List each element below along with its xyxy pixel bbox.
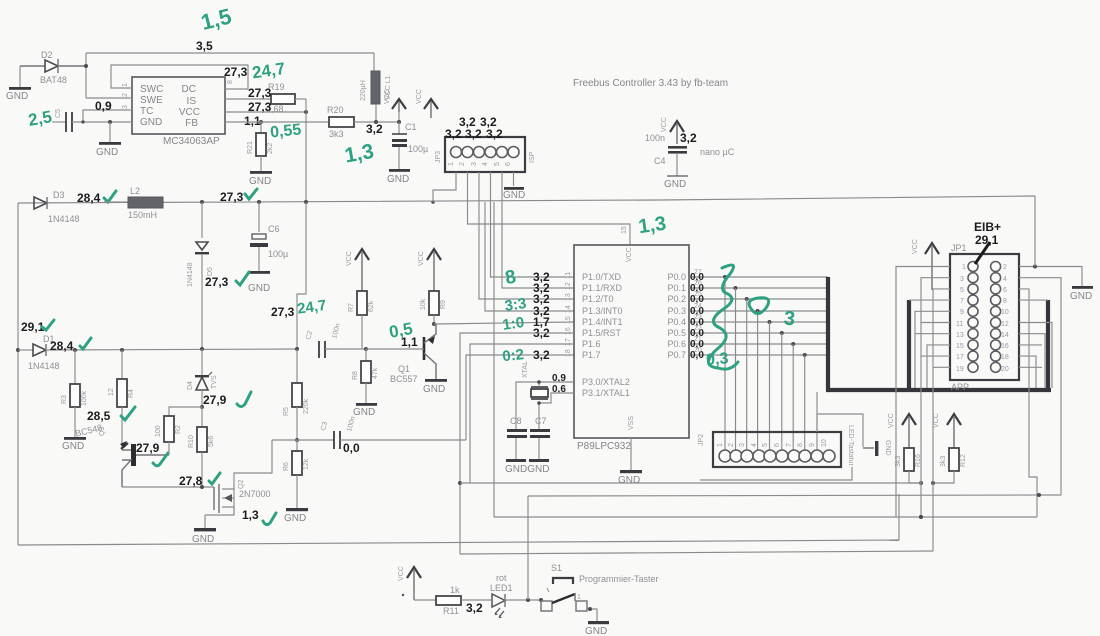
wire FB row bbox=[225, 121, 329, 123]
diode D1 1N4148 bbox=[16, 334, 297, 371]
ground at C1 bbox=[387, 169, 410, 185]
svg-text:3: 3 bbox=[122, 105, 129, 109]
wire VCC pin to node bbox=[225, 99, 308, 202]
svg-text:nano µC: nano µC bbox=[700, 147, 735, 157]
svg-text:FB: FB bbox=[185, 118, 198, 129]
labels 3,2 row above ISP bbox=[445, 115, 503, 141]
svg-text:P0.3: P0.3 bbox=[667, 306, 686, 316]
resistor R19 bbox=[225, 82, 306, 114]
svg-text:3k3: 3k3 bbox=[940, 456, 947, 467]
svg-text:P3.0/XTAL2: P3.0/XTAL2 bbox=[582, 377, 630, 387]
svg-text:VCC: VCC bbox=[888, 413, 895, 428]
microcontroller U2 P89LPC932 bbox=[574, 245, 689, 452]
svg-text:8: 8 bbox=[1003, 298, 1007, 305]
bus net y542 bbox=[18, 540, 899, 545]
green note 0,5 bbox=[388, 319, 415, 342]
green notes at P1 pins bbox=[501, 267, 527, 366]
vertical link bus542 to bus495 bbox=[898, 494, 900, 540]
svg-text:R3: R3 bbox=[61, 395, 68, 404]
green 3 mark bbox=[783, 307, 796, 330]
diode D2 BAT48 bbox=[20, 50, 88, 85]
capacitor C5 on pin4 row bbox=[52, 109, 132, 132]
svg-text:3,5: 3,5 bbox=[196, 39, 213, 53]
P0 rows with 0,0 labels bbox=[689, 277, 828, 355]
svg-text:26: 26 bbox=[694, 280, 702, 287]
svg-text:DC: DC bbox=[182, 84, 196, 95]
svg-text:GND: GND bbox=[503, 190, 525, 201]
svg-text:0,0: 0,0 bbox=[343, 441, 360, 455]
svg-text:24: 24 bbox=[694, 303, 702, 310]
svg-text:3: 3 bbox=[960, 276, 964, 283]
svg-text:220µH: 220µH bbox=[360, 80, 367, 101]
svg-text:3: 3 bbox=[783, 307, 796, 330]
svg-text:3,2: 3,2 bbox=[486, 127, 503, 141]
svg-text:20: 20 bbox=[694, 347, 702, 354]
svg-text:GND: GND bbox=[62, 441, 84, 452]
header JP2 LED-Tastatur bbox=[698, 425, 854, 467]
label 27,3 top bbox=[224, 65, 248, 79]
label 0,9 bbox=[95, 99, 112, 113]
svg-text:13: 13 bbox=[956, 332, 964, 339]
green note 24,7 top bbox=[251, 59, 286, 82]
junction dots on rail bbox=[200, 200, 308, 204]
svg-text:R21: R21 bbox=[247, 141, 254, 154]
svg-text:GND: GND bbox=[249, 176, 271, 187]
ground at R21 bbox=[249, 171, 272, 187]
svg-text:JP2: JP2 bbox=[698, 434, 705, 446]
resistor R9 10k bbox=[420, 291, 447, 324]
svg-text:SWE: SWE bbox=[140, 95, 163, 106]
wire EIB+ pin1 to bus bbox=[896, 267, 950, 518]
svg-text:GND: GND bbox=[1070, 291, 1092, 302]
svg-text:27: 27 bbox=[694, 269, 702, 276]
svg-text:C1: C1 bbox=[405, 122, 417, 132]
junction dots P0 bbox=[723, 275, 807, 357]
svg-text:SWC: SWC bbox=[140, 84, 163, 95]
green note 2,5 bbox=[27, 107, 54, 130]
svg-text:27,9: 27,9 bbox=[203, 393, 227, 407]
svg-text:100: 100 bbox=[155, 425, 162, 437]
svg-text:27,9: 27,9 bbox=[136, 441, 160, 455]
label 28,4 + check bbox=[77, 191, 116, 205]
label 27,3 + check at rail bbox=[220, 189, 257, 204]
bus net y495 bbox=[528, 493, 1061, 497]
pin numbers uC right bbox=[694, 269, 702, 354]
label 27,9 + check at Q3 bbox=[136, 441, 168, 466]
wire top 3,5 loop bbox=[86, 53, 374, 98]
svg-text:27,8: 27,8 bbox=[179, 474, 203, 488]
svg-text:5k6: 5k6 bbox=[208, 436, 215, 447]
svg-text:8: 8 bbox=[797, 443, 804, 447]
svg-text:23: 23 bbox=[694, 314, 702, 321]
op-amp U1 MC34063AP box bbox=[132, 77, 225, 147]
svg-text:150mH: 150mH bbox=[128, 210, 157, 220]
resistor R11 1k bbox=[414, 585, 491, 616]
header JP1 APP bbox=[950, 243, 1019, 392]
svg-text:rot: rot bbox=[496, 573, 507, 583]
svg-text:21: 21 bbox=[694, 336, 702, 343]
svg-text:16: 16 bbox=[1001, 343, 1009, 350]
wire ISP pin3 to P1.2 bbox=[479, 172, 574, 299]
bus net y483 bbox=[460, 482, 921, 484]
label 28,5 + check bbox=[87, 407, 135, 423]
wire JP1 left stubs bbox=[909, 278, 950, 483]
wire gate row 27,8 bbox=[122, 485, 214, 489]
ground at C4 bbox=[664, 176, 688, 190]
svg-text:VCC: VCC bbox=[661, 117, 668, 132]
svg-text:15: 15 bbox=[956, 343, 964, 350]
label 1,1 at Q1 bbox=[401, 335, 418, 349]
svg-text:220k: 220k bbox=[303, 398, 310, 414]
wire bus to bottom net bbox=[493, 202, 495, 517]
label 27,3 + green 24,7 at branch bbox=[271, 297, 327, 319]
svg-text:GND: GND bbox=[248, 283, 270, 294]
resistor R5 220k bbox=[283, 349, 310, 440]
resistor R20 3k3 bbox=[327, 105, 399, 139]
svg-text:R20: R20 bbox=[327, 105, 344, 115]
svg-text:ISP: ISP bbox=[529, 151, 536, 163]
svg-text:7: 7 bbox=[786, 443, 793, 447]
capacitor C2 100n bbox=[305, 323, 366, 358]
svg-text:R4: R4 bbox=[128, 389, 135, 398]
wire rail down to R5 branch bbox=[297, 202, 306, 349]
svg-text:2,5: 2,5 bbox=[27, 107, 54, 130]
resistor R12 3k3 bbox=[931, 448, 967, 485]
svg-text:100n: 100n bbox=[645, 133, 665, 143]
wire Q1 collector to P1.4 bbox=[434, 322, 574, 324]
svg-text:27,3: 27,3 bbox=[205, 275, 229, 289]
svg-text:VCC: VCC bbox=[912, 239, 919, 254]
svg-text:P1.5/RST: P1.5/RST bbox=[582, 328, 622, 338]
green note 1,5 bbox=[198, 3, 234, 35]
switch S1 Programmier-Taster bbox=[541, 563, 659, 621]
svg-text:3,2: 3,2 bbox=[445, 127, 462, 141]
wire P1.6 down net bbox=[470, 344, 574, 483]
inductor L1 220uH bbox=[360, 71, 392, 124]
svg-text:P0.5: P0.5 bbox=[667, 328, 686, 338]
node at R6 top bbox=[272, 438, 334, 442]
bus net y517 bbox=[494, 515, 1037, 519]
svg-text:GND: GND bbox=[618, 475, 640, 486]
svg-text:S1: S1 bbox=[551, 563, 562, 573]
svg-text:R8: R8 bbox=[352, 371, 359, 380]
green note 0,55 bbox=[269, 121, 302, 141]
svg-text:TVS: TVS bbox=[211, 375, 218, 389]
svg-text:3,2: 3,2 bbox=[680, 131, 697, 145]
svg-text:7: 7 bbox=[960, 298, 964, 305]
svg-text:100k: 100k bbox=[81, 390, 88, 406]
VCC arrow at R11 bbox=[398, 566, 421, 600]
svg-text:11: 11 bbox=[565, 272, 572, 279]
capacitor C6 100u electrolytic bbox=[250, 202, 288, 272]
svg-text:15: 15 bbox=[621, 226, 628, 234]
svg-text:100µ: 100µ bbox=[408, 144, 428, 154]
wire node to P1.3 bbox=[485, 202, 574, 311]
wire ISP pin4 to P1.0 bbox=[491, 172, 575, 277]
grounds at C8 C7 bbox=[505, 459, 549, 475]
thick bus bracket bbox=[826, 277, 1051, 390]
svg-text:JP1: JP1 bbox=[951, 243, 967, 253]
svg-text:GND: GND bbox=[353, 407, 375, 418]
green 0,3 mark bbox=[706, 350, 729, 369]
svg-text:1N4148: 1N4148 bbox=[48, 214, 80, 224]
header JP3 ISP bbox=[435, 137, 536, 172]
svg-text:12: 12 bbox=[565, 282, 572, 290]
svg-text:17: 17 bbox=[565, 338, 572, 346]
resistor R8 47k bbox=[352, 349, 379, 404]
svg-text:C4: C4 bbox=[654, 156, 666, 166]
svg-text:0,3: 0,3 bbox=[706, 350, 729, 369]
wire JP1 right stubs bbox=[1019, 278, 1061, 517]
svg-text:1N4148: 1N4148 bbox=[187, 262, 194, 287]
inductor L2 150mH bbox=[104, 186, 163, 220]
labels 0,9 0,6 at xtal pins bbox=[552, 373, 566, 395]
svg-text:Q2: Q2 bbox=[238, 480, 245, 489]
zener D4 TVS bbox=[187, 349, 218, 409]
label EIB+ 29,1 with arrow bbox=[974, 220, 1001, 264]
svg-text:25: 25 bbox=[694, 291, 702, 298]
svg-text:C5: C5 bbox=[55, 109, 62, 118]
svg-text:9: 9 bbox=[960, 309, 964, 316]
wire ISP pin2 VCC to uC bbox=[468, 172, 631, 245]
svg-text:P0.0: P0.0 bbox=[667, 272, 686, 282]
svg-text:P1.6: P1.6 bbox=[582, 339, 601, 349]
svg-text:GND: GND bbox=[884, 440, 891, 456]
svg-text:0,5: 0,5 bbox=[388, 319, 415, 342]
svg-text:R10: R10 bbox=[188, 435, 195, 448]
svg-text:GND: GND bbox=[585, 626, 607, 636]
ground at R8 bbox=[353, 403, 377, 418]
svg-text:10: 10 bbox=[821, 439, 828, 447]
wire P1.5 to reset net bbox=[458, 333, 574, 554]
resistor R7 62k bbox=[348, 291, 375, 351]
title Freebus Controller bbox=[573, 78, 728, 89]
svg-text:P0.2: P0.2 bbox=[667, 294, 686, 304]
svg-text:APP: APP bbox=[951, 382, 969, 392]
svg-text:28,4: 28,4 bbox=[77, 191, 101, 205]
svg-text:1: 1 bbox=[122, 83, 129, 87]
VCC arrow at C1 node bbox=[384, 89, 406, 124]
node 3,5 label bbox=[196, 39, 213, 53]
svg-text:3:3: 3:3 bbox=[504, 295, 528, 315]
transistor Q2 2N7000 bbox=[205, 480, 271, 515]
svg-text:R12: R12 bbox=[960, 454, 967, 467]
svg-text:27,3: 27,3 bbox=[220, 190, 244, 204]
wire ISP pin5 to P1.1 bbox=[502, 172, 574, 288]
svg-text:22: 22 bbox=[694, 325, 702, 332]
svg-text:Q1: Q1 bbox=[398, 364, 410, 374]
svg-text:9: 9 bbox=[809, 443, 816, 447]
pin numbers uC left bbox=[565, 272, 572, 357]
VCC arrow second bbox=[416, 89, 438, 118]
capacitor C4 100n bbox=[645, 117, 735, 176]
svg-text:R6: R6 bbox=[283, 462, 290, 471]
wire to Q1 base bbox=[366, 348, 423, 350]
svg-text:VCC: VCC bbox=[398, 566, 405, 581]
wire LED node up to bus bbox=[527, 496, 529, 600]
wire JP1 pin2 to ground bbox=[1019, 265, 1082, 288]
svg-text:P1.2/T0: P1.2/T0 bbox=[582, 294, 614, 304]
svg-text:LED-Tastatur: LED-Tastatur bbox=[847, 425, 854, 467]
VCC arrow at R12 bbox=[933, 413, 961, 448]
rail 27,3 bus bbox=[18, 196, 1035, 203]
label 29,1 + check bbox=[21, 320, 54, 334]
svg-text:VCC: VCC bbox=[346, 251, 353, 266]
svg-text:16: 16 bbox=[565, 327, 572, 335]
svg-text:P3.1/XTAL1: P3.1/XTAL1 bbox=[582, 388, 630, 398]
svg-text:P1.0/TXD: P1.0/TXD bbox=[582, 272, 622, 282]
diode D5 1N4148 vertical bbox=[187, 202, 214, 349]
svg-text:6: 6 bbox=[505, 162, 512, 166]
labels 3,2 column at P1 pins bbox=[533, 270, 550, 362]
svg-text:P0.4: P0.4 bbox=[667, 317, 686, 327]
svg-text:1: 1 bbox=[577, 594, 581, 601]
svg-text:2: 2 bbox=[1003, 264, 1007, 271]
labels 27,3 27,3 at R19 bbox=[248, 86, 272, 114]
svg-text:P0.6: P0.6 bbox=[667, 339, 686, 349]
svg-text:EIB+: EIB+ bbox=[974, 220, 1001, 234]
wire rail corner down right bbox=[1034, 196, 1036, 267]
VCC arrow at R7 bbox=[346, 249, 369, 291]
svg-text:1: 1 bbox=[717, 443, 724, 447]
resistor R3 100k bbox=[61, 350, 88, 438]
svg-text:R11: R11 bbox=[443, 606, 459, 616]
svg-text:D4: D4 bbox=[187, 381, 194, 390]
svg-text:12k: 12k bbox=[303, 458, 310, 470]
svg-text:C7: C7 bbox=[535, 416, 547, 426]
label 3,2 at LED bbox=[466, 601, 483, 615]
svg-text:18: 18 bbox=[1001, 354, 1009, 361]
svg-text:LED1: LED1 bbox=[490, 583, 513, 593]
crystal Q4 bbox=[516, 361, 574, 429]
svg-text:D3: D3 bbox=[53, 190, 65, 200]
svg-text:Freebus Controller 3.43 by fb-: Freebus Controller 3.43 by fb-team bbox=[573, 78, 728, 89]
svg-text:1: 1 bbox=[962, 264, 966, 271]
svg-text:P0.1: P0.1 bbox=[667, 283, 686, 293]
svg-text:VCC: VCC bbox=[626, 247, 633, 262]
svg-text:IS: IS bbox=[187, 96, 197, 107]
capacitor C3 100n bbox=[320, 416, 466, 455]
label 27,9 + check at D4 bbox=[203, 392, 251, 407]
svg-text:R9: R9 bbox=[440, 300, 447, 309]
svg-text:VCC: VCC bbox=[418, 251, 425, 266]
svg-text:1k: 1k bbox=[450, 585, 460, 595]
svg-text:11: 11 bbox=[956, 321, 963, 328]
transistor Q3 bbox=[120, 441, 169, 487]
capacitor C7 bbox=[530, 416, 550, 459]
wire ISP pin1 to rail bbox=[431, 172, 456, 204]
resistor R10 5k6 bbox=[188, 407, 215, 487]
svg-text:10: 10 bbox=[1001, 309, 1009, 316]
svg-text:GND: GND bbox=[96, 147, 118, 158]
pin 1 SWC loop to pin 8 DC bbox=[111, 65, 248, 89]
svg-text:14: 14 bbox=[565, 305, 572, 313]
label 1,1 at FB bbox=[244, 114, 263, 128]
svg-text:18: 18 bbox=[565, 349, 572, 357]
green note 1,3 bbox=[343, 140, 376, 168]
svg-text:15: 15 bbox=[565, 316, 572, 324]
ground at R6 bbox=[284, 508, 308, 524]
junction dots at S1 bbox=[526, 598, 543, 602]
svg-text:P1.7: P1.7 bbox=[582, 350, 601, 360]
svg-text:R2: R2 bbox=[175, 425, 182, 434]
pin 3 TC wire bbox=[83, 105, 132, 122]
svg-text:27,3: 27,3 bbox=[248, 86, 272, 100]
ground at S1 bbox=[585, 621, 609, 636]
wire JP2 pin9 to ground bbox=[817, 414, 863, 447]
svg-text:D2: D2 bbox=[41, 50, 53, 60]
svg-text:2k2: 2k2 bbox=[267, 143, 274, 154]
svg-text:3: 3 bbox=[471, 162, 478, 166]
svg-text:P89LPC932: P89LPC932 bbox=[577, 441, 631, 452]
svg-text:2: 2 bbox=[122, 93, 129, 97]
svg-text:P1.1/RXD: P1.1/RXD bbox=[582, 283, 623, 293]
svg-text:12: 12 bbox=[1001, 321, 1009, 328]
vertical R16 node to bus bbox=[919, 483, 923, 519]
wires P0 down to JP2 bbox=[725, 277, 817, 450]
svg-text:4: 4 bbox=[482, 162, 489, 166]
svg-text:28,4: 28,4 bbox=[50, 339, 74, 353]
svg-text:BAT48: BAT48 bbox=[40, 75, 67, 85]
svg-text:13: 13 bbox=[565, 293, 572, 301]
label 28,4 + check at D1 bbox=[50, 338, 91, 353]
drain wire Q2 to C3 row bbox=[234, 440, 272, 481]
svg-text:17: 17 bbox=[956, 354, 964, 361]
frame line under JP2 bbox=[700, 467, 852, 480]
label 1,3 + check at Q2 bbox=[242, 508, 276, 525]
svg-text:P0.7: P0.7 bbox=[667, 350, 686, 360]
ground at Q2 bbox=[192, 515, 216, 545]
svg-text:BC557: BC557 bbox=[390, 374, 418, 384]
svg-text:GND: GND bbox=[387, 174, 409, 185]
vertical R12 node to bus bbox=[932, 483, 934, 551]
svg-text:4: 4 bbox=[751, 443, 758, 447]
bus net y553 bbox=[460, 551, 933, 554]
svg-text:14: 14 bbox=[1001, 332, 1009, 339]
svg-text:10k: 10k bbox=[420, 298, 427, 310]
svg-text:R7: R7 bbox=[348, 303, 355, 312]
svg-text:100µ: 100µ bbox=[268, 249, 288, 259]
transistor Q3 BC548 label bbox=[74, 422, 106, 438]
svg-text:5: 5 bbox=[960, 287, 964, 294]
svg-text:1: 1 bbox=[448, 162, 455, 166]
green loop 0 bbox=[749, 298, 769, 314]
svg-text:2: 2 bbox=[459, 162, 466, 166]
svg-text:1:0: 1:0 bbox=[501, 314, 525, 334]
svg-text:5: 5 bbox=[494, 162, 501, 166]
svg-text:1N4148: 1N4148 bbox=[28, 361, 60, 371]
ground at D2 bbox=[6, 66, 31, 102]
label 27,3 + check at D5 bbox=[205, 272, 249, 289]
svg-text:VCC: VCC bbox=[933, 413, 940, 428]
svg-text:L2: L2 bbox=[130, 186, 140, 196]
node dots on D1 row bbox=[73, 347, 299, 352]
svg-text:3,2: 3,2 bbox=[465, 127, 482, 141]
svg-text:Programmier-Taster: Programmier-Taster bbox=[579, 574, 659, 584]
ground at JP1 pin2 bbox=[1070, 286, 1093, 302]
svg-text:GND: GND bbox=[423, 384, 445, 395]
VCC arrow at R9 bbox=[418, 249, 441, 291]
svg-text:8: 8 bbox=[227, 80, 234, 84]
svg-text:28,5: 28,5 bbox=[87, 409, 111, 423]
ground at R3 bbox=[62, 437, 86, 452]
svg-text:GND: GND bbox=[284, 513, 306, 524]
svg-text:JP3: JP3 bbox=[435, 151, 442, 163]
wire C3 to P1.7 bbox=[466, 355, 574, 440]
label 27,8 + check bbox=[179, 473, 220, 488]
svg-text:VCC: VCC bbox=[416, 89, 423, 104]
svg-text:VCC: VCC bbox=[179, 107, 200, 118]
